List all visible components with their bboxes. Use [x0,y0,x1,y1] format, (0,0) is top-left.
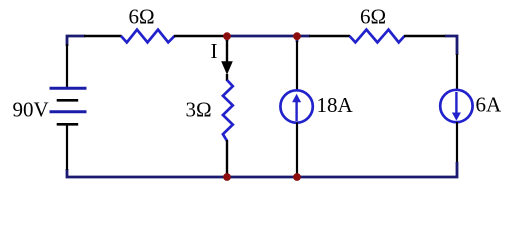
wire node B stub (navy) [296,35,299,42]
node B junction dot [293,32,301,40]
wire bottom-right corner and bottom rail (navy) [67,162,457,177]
battery V1 plate short (black) [57,99,78,102]
wire R2 to top-right corner (black) [404,35,446,37]
current source I2 arrow (down) [455,92,457,113]
wire left vertical upper (black) [66,44,68,88]
wire node B to R2 (black) [309,35,350,37]
wire node A stub (navy) [226,35,229,41]
wire battery bottom vertical (black) [66,124,68,170]
svg-text:6A: 6A [476,93,503,117]
wire top segment to R1 (black) [84,35,122,37]
wire node A down to arrow (black) [226,40,228,62]
wire top-right corner (navy) [445,36,457,55]
wire I2 bottom to corner (black) [456,122,458,163]
wire node A to node B (navy) [226,35,310,38]
node C junction dot (R3 bottom) [223,173,231,181]
wire top-left corner (navy) [67,36,85,46]
svg-text:I: I [211,39,218,63]
node A junction dot [223,32,231,40]
current source I1 arrow (up) [295,102,297,122]
battery V1 plate long bottom (blue) [50,110,87,113]
wire arrow to R3 (black) [226,74,228,81]
battery V1 plate long top (blue) [50,87,87,90]
node D junction dot (I1 bottom) [293,173,301,181]
current source I2 6A circle [440,90,472,122]
svg-text:18A: 18A [317,93,354,117]
resistor R3 3ohm vertical zigzag [223,80,233,141]
wire R3 bottom to rail (black) [226,140,228,177]
svg-text:3Ω: 3Ω [186,98,212,122]
svg-text:90V: 90V [13,98,49,122]
svg-text:6Ω: 6Ω [360,5,386,29]
wire right vertical to I2 top (black) [456,54,458,90]
wire R1 to node A (black) [174,35,227,37]
wire node B down to I1 (black) [296,41,298,90]
resistor R2 6ohm zigzag [350,30,405,43]
resistor R1 6ohm zigzag [121,30,175,43]
svg-text:6Ω: 6Ω [129,5,155,29]
battery V1 plate short bottom (black) [57,123,78,126]
wire I1 bottom to rail (black) [296,123,298,178]
current source I1 18A circle [280,90,312,122]
current arrow I (black arrowhead) [221,61,233,75]
